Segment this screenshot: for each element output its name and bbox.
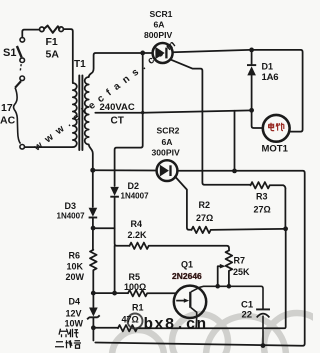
svg-text:17: 17 xyxy=(1,102,13,114)
svg-text:F1: F1 xyxy=(46,36,58,48)
svg-text:R4: R4 xyxy=(131,219,143,229)
svg-text:100Ω: 100Ω xyxy=(124,282,146,292)
svg-text:1N4007: 1N4007 xyxy=(121,192,150,201)
svg-text:5A: 5A xyxy=(46,49,60,61)
svg-text:6A: 6A xyxy=(154,20,165,30)
svg-text:800PIV: 800PIV xyxy=(144,30,172,40)
svg-text:47Ω: 47Ω xyxy=(122,315,139,325)
svg-text:22: 22 xyxy=(242,310,253,321)
svg-text:6A: 6A xyxy=(162,137,173,147)
svg-text:S1: S1 xyxy=(3,47,16,59)
svg-text:2N2646: 2N2646 xyxy=(172,271,202,281)
svg-text:SCR2: SCR2 xyxy=(157,126,180,136)
svg-text:R5: R5 xyxy=(129,272,141,282)
svg-text:AC: AC xyxy=(0,115,16,127)
svg-text:1N4007: 1N4007 xyxy=(57,212,86,221)
svg-text:bx8.cn: bx8.cn xyxy=(144,316,208,334)
svg-text:R2: R2 xyxy=(199,200,211,210)
svg-text:1A6: 1A6 xyxy=(262,72,279,83)
svg-text:R1: R1 xyxy=(132,303,144,313)
svg-text:T1: T1 xyxy=(74,59,86,70)
svg-text:D1: D1 xyxy=(262,62,274,72)
svg-text:300PIV: 300PIV xyxy=(152,148,180,158)
svg-text:25K: 25K xyxy=(233,267,250,277)
svg-text:Q1: Q1 xyxy=(181,260,193,270)
svg-text:SCR1: SCR1 xyxy=(150,9,173,19)
svg-text:D2: D2 xyxy=(128,181,140,191)
svg-text:R6: R6 xyxy=(69,251,81,261)
svg-text:10W: 10W xyxy=(65,319,84,329)
svg-text:20W: 20W xyxy=(66,272,85,282)
svg-text:D3: D3 xyxy=(65,201,77,211)
svg-text:CT: CT xyxy=(111,116,124,127)
svg-text:D4: D4 xyxy=(69,297,81,307)
svg-text:10K: 10K xyxy=(67,262,84,272)
svg-text:R3: R3 xyxy=(256,192,268,202)
svg-text:2.2K: 2.2K xyxy=(128,230,148,240)
svg-text:12V: 12V xyxy=(66,309,82,319)
svg-text:MOT1: MOT1 xyxy=(262,144,289,155)
svg-text:240VAC: 240VAC xyxy=(100,102,135,113)
svg-text:R7: R7 xyxy=(234,256,246,266)
svg-text:27Ω: 27Ω xyxy=(196,213,213,223)
svg-text:27Ω: 27Ω xyxy=(254,205,271,215)
